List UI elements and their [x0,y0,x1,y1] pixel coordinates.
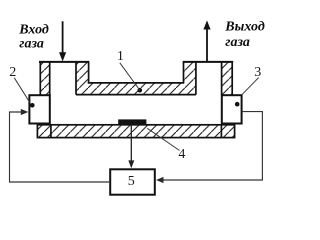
electrode box 3 [222,95,242,123]
outline: left port top [39,61,89,63]
wire: electrode 3 to box5 (right loop) [156,112,262,184]
outline: slab top edge [88,82,184,84]
hatched body: bottom slab [37,124,235,138]
electrode 3 contact dot [235,102,240,107]
svg-text:5: 5 [128,174,135,189]
pointer line for label 1 [120,63,140,90]
wire: box5 to electrode 2 (left loop) [10,109,110,182]
svg-text:1: 1 [117,49,124,64]
control unit box 5 [110,169,155,194]
outline: outlet channel left edge [195,62,197,95]
node dot on slab (label 1 target) [138,88,143,93]
gas inlet arrow [59,21,66,61]
svg-text:газа: газа [225,35,250,50]
electrode 2 contact dot [30,103,35,108]
heater bar 4 [118,119,146,125]
outline: right port top [183,61,234,63]
outline: chamber ceiling [76,94,196,96]
hatched body: right port right wall [221,61,232,95]
electrode box 2 [29,95,49,123]
gas outlet arrow [203,20,210,61]
outline: left port outer left edge [39,61,41,95]
hatched body: left port left wall [40,61,50,95]
outline: right port outer right edge [231,61,233,95]
bottom slab border [37,125,234,138]
pointer line for label 4 [147,128,179,150]
svg-text:Вход: Вход [18,23,49,38]
outline: outlet channel right edge [221,62,223,95]
pointer line for label 2 [14,78,29,102]
bottom slab left joint line [50,124,52,138]
outline: inlet channel left edge [49,62,51,95]
pointer line for label 3 [242,78,259,95]
svg-text:4: 4 [178,147,185,162]
hatched body: left port right bar [76,61,89,95]
svg-text:2: 2 [9,65,16,80]
svg-text:газа: газа [19,37,44,52]
svg-text:Выход: Выход [224,19,265,34]
outline: right bar left edge [183,62,185,83]
hatched body: center top slab [89,83,184,95]
bottom slab right joint line [220,124,222,138]
outline: inlet channel right edge [75,62,77,95]
hatched body: right port left bar [184,61,196,95]
svg-text:3: 3 [254,65,261,80]
outline: left bar right edge [88,62,90,83]
wire: heater to box 5 with arrow [128,125,134,168]
